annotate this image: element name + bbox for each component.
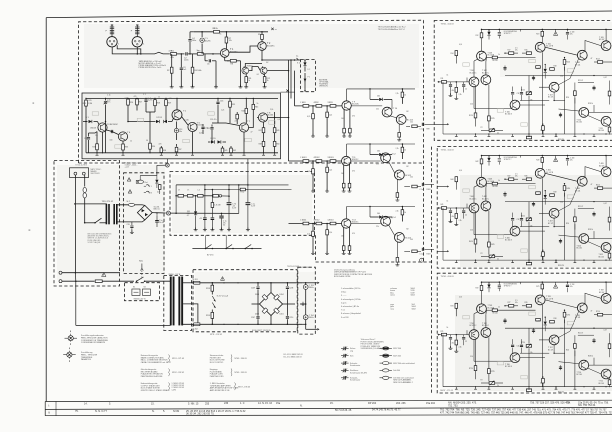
svg-text:BC 160: BC 160 [577,248,582,250]
svg-text:100: 100 [410,239,413,241]
resistor R92 [316,105,322,108]
channel 1 left lower resistors [475,87,477,113]
channel 2 pair collector wires [473,187,475,203]
channel 1 long-tail resistor [455,50,457,57]
bridge rectifier GL1 [137,205,152,220]
bridge DC output wire [152,212,166,214]
svg-text:560: 560 [377,96,380,98]
dashed enclosure right edge / bottom of preamp unit [423,20,425,262]
svg-text:1k5: 1k5 [341,236,344,238]
diode stage 3 [370,216,379,218]
channel 3 output wires right [589,364,612,366]
stage 3 output entry into channel box 3 [437,250,447,252]
arrow element in connector box [304,73,306,82]
transistor T 14a [381,216,391,226]
channel 3 mid coupling [554,345,565,353]
svg-text:1N4148: 1N4148 [90,128,96,130]
svg-text:5 grün: 5 grün [341,301,346,304]
svg-text:1k: 1k [404,150,406,152]
svg-text:T 411: T 411 [599,254,603,256]
svg-text:2,2k: 2,2k [396,148,399,150]
svg-text:T 105: T 105 [546,44,551,46]
svg-text:5.: 5. [163,409,165,413]
svg-text:C2: C2 [465,215,467,217]
channel 3 left lower resistors [475,339,477,365]
svg-text:NN. 755 753 34.: NN. 755 753 34. [578,404,596,407]
svg-text:6 schwarz/rot } B7-4a: 6 schwarz/rot } B7-4a [341,305,360,308]
svg-text:R76: R76 [525,302,528,304]
channel 3 T05 top resistor [541,282,543,284]
svg-text:T 709: T 709 [599,290,604,292]
svg-text:R36: R36 [163,150,166,152]
filter box mid ground [305,300,307,308]
plug pin left [74,172,77,175]
channel 2 long verticals [541,178,543,260]
svg-text:BD 106: BD 106 [599,383,604,385]
svg-text:8 schwarz } Hauptk: 8 schwarz } Hauptkabel [341,312,361,315]
svg-text:1k: 1k [257,103,259,105]
svg-text:1,5k: 1,5k [560,76,563,78]
svg-text:GRUPPO DELLO STADIO FINALE: GRUPPO DELLO STADIO FINALE [141,389,171,392]
sheet border left edge [45,18,47,402]
transistor T 403 [477,177,487,187]
svg-text:C210: C210 [289,317,293,319]
T3 bias components [88,133,90,137]
zener diode channel 1 [488,29,490,31]
dashed step between tone box and switch section [315,235,317,262]
potentiometer channel 1 [526,92,531,95]
svg-text:B471 305: B471 305 [393,356,401,358]
channel 2 mid coupling [554,218,565,226]
wire switch to transformer primary bottom [100,222,107,224]
crystal element channel 1 [498,29,500,32]
wire [177,53,185,55]
capacitor C12 [145,97,147,100]
svg-text:2 blau: 2 blau [341,292,346,294]
svg-text:T 110: T 110 [577,119,581,121]
tone box top wire [176,184,248,186]
bridge diode D202 [262,308,268,314]
svg-text:47k: 47k [314,102,317,104]
svg-text:470k: 470k [169,51,173,53]
cap column x=229 [228,185,230,202]
ground bus under input stage [170,85,174,88]
svg-text:R21 47: R21 47 [578,80,583,82]
svg-text:1k5: 1k5 [341,173,344,175]
svg-text:Rel.: Rel. [145,182,149,184]
svg-text:15.: 15. [151,402,155,405]
top supply rail of preamp [194,31,268,33]
svg-text:1k: 1k [498,54,500,56]
svg-text:TR10 276 02: TR10 276 02 [102,201,114,203]
warning triangle channel 3 [554,284,558,288]
svg-text:SW060-407 N: SW060-407 N [134,298,147,300]
tone output wires to right [248,184,289,186]
legend capacitor symbol row 5 [341,377,344,379]
svg-text:R28 1k: R28 1k [588,356,593,358]
svg-text:C 1: C 1 [143,94,146,96]
TR2 secondary bottom lead [182,324,193,325]
stage 1 lower components [398,124,400,132]
resistor R116 vertical [564,58,566,60]
svg-text:R28 1k: R28 1k [588,103,593,105]
svg-text:1,5M: 1,5M [88,103,92,105]
resistor R102 [316,160,322,163]
svg-text:1k: 1k [197,50,199,52]
svg-text:22k: 22k [376,108,379,110]
svg-text:C 1u: C 1u [300,102,304,104]
resistor R29 [165,98,167,99]
svg-text:2,2k: 2,2k [459,220,462,222]
resistor R4 [192,54,194,67]
channel 1 top supply rail [482,28,612,30]
transistor T 702 [481,328,491,338]
channel 1 extra small parts [504,66,506,72]
stage 2 ground marks [311,189,315,192]
svg-text:R26: R26 [566,223,569,225]
outer dashed edge of channel boxes 2-3 [431,147,433,393]
dashed enclosure: transformer 2 box [164,275,192,330]
divider cap column [204,185,206,218]
svg-text:22k: 22k [376,226,379,228]
svg-text:1,5k: 1,5k [560,202,563,204]
svg-text:BC 147 B: BC 147 B [546,298,553,300]
svg-text:R119: R119 [427,254,431,256]
cap C210 [286,304,288,316]
svg-text:BD 106: BD 106 [599,256,604,258]
svg-text:3 ——: 3 —— [341,295,346,297]
svg-text:R46: R46 [525,176,528,178]
svg-text:2,2k: 2,2k [396,211,399,213]
svg-text:255: 255 [205,402,210,405]
svg-text:47u: 47u [570,160,573,162]
wire from DIN socket B1 bottom to input line [112,47,170,54]
stage 1 ground marks [311,134,315,137]
svg-text:22k: 22k [376,164,379,166]
svg-text:TS701 - 054 03: TS701 - 054 03 [441,150,454,152]
tone chain resistor R74 [213,195,219,198]
svg-text:AMPLIFICATORE 3 VIE: AMPLIFICATORE 3 VIE [210,389,230,392]
filter cap C703 upper [305,283,307,285]
svg-text:R8: R8 [231,64,233,66]
svg-text:3300u: 3300u [309,287,314,289]
svg-text:4,7k: 4,7k [459,44,462,46]
svg-text:SECTEUR: SECTEUR [91,173,101,175]
svg-text:Si 2: Si 2 [127,201,130,203]
svg-text:BC 147 B: BC 147 B [546,46,553,48]
svg-text:1,2k: 1,2k [329,170,332,172]
resistor R93 [330,105,336,108]
svg-text:470: 470 [352,115,355,117]
svg-text:14.: 14. [84,403,88,406]
channel 2 extra small parts [504,192,506,198]
svg-text:CAIXA COLLEGAMENTO mit. NETZ: CAIXA COLLEGAMENTO mit. NETZ [141,361,172,364]
svg-text:R47: R47 [508,176,511,178]
svg-text:R49: R49 [276,130,279,132]
svg-text:BD 107: BD 107 [599,165,604,167]
stage 1 top rail [347,88,415,90]
crystal element channel 2 [498,156,500,159]
channel 3 input network [438,334,470,336]
switch row stubs [205,235,207,248]
svg-text:T 706: T 706 [505,364,510,366]
svg-text:1k: 1k [404,94,406,96]
svg-text:C 403: C 403 [570,158,574,160]
channel 2 top supply rail [482,155,612,157]
svg-text:47k: 47k [171,57,174,59]
channel 2 bottom rail [443,259,612,261]
capacitor C15 [211,125,213,127]
svg-text:T 3 BC149C: T 3 BC149C [107,124,119,126]
capacitor C13 [176,122,178,129]
channel 3 rail dropper resistor [481,282,483,285]
svg-text:TS701-05/-06 Abb/Bau 20/7+: TS701-05/-06 Abb/Bau 20/7+2 [378,28,406,31]
svg-text:0,47: 0,47 [604,203,607,205]
channel 3 mid bus wires [505,327,612,329]
svg-text:2,2k: 2,2k [459,347,462,349]
svg-text:B 207 (4 x)+A: B 207 (4 x)+A [217,295,229,298]
svg-text:R26: R26 [566,350,569,352]
svg-text:SPRUTZ T: SPRUTZ T [504,286,512,288]
svg-text:2,2k: 2,2k [125,98,128,100]
svg-text:15a: 15a [276,402,281,405]
resistor R422 vertical [574,209,576,217]
svg-text:47k: 47k [314,157,317,159]
svg-text:P2: P2 [481,127,483,129]
resistor R91 [303,105,309,108]
svg-text:R99: R99 [427,129,430,131]
svg-text:C11 220: C11 220 [517,346,523,348]
stage 2 top rail [347,143,415,145]
svg-text:T 711: T 711 [599,381,603,383]
driver stage 3 input wire [289,223,342,225]
dashed enclosure: power supply 2 box [193,270,297,332]
transformer TR1 secondary top lead [117,204,129,206]
channel 3 top rail stubs [488,282,490,284]
svg-text:S1: S1 [133,287,135,289]
svg-text:R724: R724 [469,368,473,370]
switch contact 2 [226,245,232,249]
capacitor C703 [567,282,569,284]
switch row wire [192,248,261,250]
T4 emitter resistor [122,141,124,144]
stage 2 top resistor [401,144,403,147]
svg-text:C 103: C 103 [570,31,574,33]
transistor T 9 input [342,101,351,110]
resistor R28 [154,98,156,99]
transistor T8 [258,113,267,122]
svg-text:C20: C20 [127,224,130,226]
svg-text:R114: R114 [596,58,600,60]
svg-text:R28: R28 [157,102,160,104]
svg-text:BC 413 C: BC 413 C [470,72,478,74]
svg-text:BD 107: BD 107 [599,292,604,294]
bridge bottom AC lead [117,220,145,224]
zener diode channel 2 [488,156,490,158]
stage 3 lower components [396,242,398,257]
stage 3 output network [404,250,410,252]
svg-text:R44: R44 [451,179,454,181]
transistor T 402 [481,201,491,211]
svg-text:6,3: 6,3 [223,224,225,226]
svg-text:P2: P2 [481,253,483,255]
channel 2 emitter bus [473,213,475,235]
zener cluster channel 1 [544,65,546,69]
transistor T 110 [579,108,589,118]
svg-text:B2: B2 [407,111,409,113]
svg-text:T 407: T 407 [548,221,553,223]
switch contact on mains line [137,277,144,281]
channel 1 left edge vertical wire [442,82,444,134]
svg-text:R28 1k: R28 1k [588,229,593,231]
svg-text:100n: 100n [192,40,196,42]
dashed enclosure: output channel box 1 (top right) [434,21,612,141]
diode stage 1 [370,98,379,100]
feed-through stub up to amp box [166,159,168,163]
svg-text:T 101: T 101 [470,70,475,72]
left margin specks [33,103,35,104]
transistor T2 [258,42,267,51]
channel 3 left edge vertical wire [442,335,444,387]
resistor R202 [211,310,213,313]
svg-text:BOUCLAGE OPRE: BOUCLAGE OPRE [334,275,351,278]
resistor R416 vertical [564,184,566,186]
bridge rectifier GL201 diamond [260,293,283,316]
transistor T 401 [469,203,479,213]
resistor R414 right [594,187,597,189]
driver stage 2 input wire [289,160,342,162]
TR2 primary top lead [170,277,172,281]
svg-text:22k: 22k [95,135,98,137]
svg-text:1k: 1k [447,327,449,329]
svg-text:R2: R2 [167,70,169,72]
channel 1 lower horizontals [520,100,549,102]
svg-text:14. N. 15. 16: 14. N. 15. 16 [258,402,273,405]
dashed enclosure: preamp unit (top-left large dashed box) [79,20,424,163]
svg-text:C10: C10 [470,356,473,358]
channel 3 bottom resistors [526,389,531,392]
transistor T 406 [510,226,520,236]
svg-text:100: 100 [110,140,113,142]
svg-text:2N3819: 2N3819 [247,66,253,68]
driver stage 1 input wire [295,105,342,107]
svg-text:C 1u: C 1u [420,129,424,131]
channel 1 input arrow [438,81,440,83]
resistor R8 at T1 emitter [224,57,226,61]
svg-text:BC160: BC160 [267,115,273,117]
svg-text:R45: R45 [255,107,258,109]
warning triangle PSU2 [221,277,225,281]
svg-text:754.: 754. [566,402,571,405]
resistor R1a on mid wire [240,188,245,191]
svg-text:R14: R14 [451,53,454,55]
svg-text:BC 161 B: BC 161 B [505,240,512,242]
diode pair mid bus [128,121,156,123]
legend oval symbol row 1 [380,347,383,349]
resistor R27 [136,97,138,100]
svg-text:12k: 12k [328,220,331,222]
svg-text:10u/35: 10u/35 [205,40,211,42]
fuse on secondary [128,203,134,206]
svg-text:47: 47 [591,58,593,60]
input DIN socket B2 [132,37,142,47]
resistor R122 vertical [574,83,576,91]
svg-text:D4 D5: D4 D5 [211,138,216,140]
dashed line: pushbutton switch section bottom [316,261,434,263]
svg-text:T 109: T 109 [599,37,604,39]
stage 2 emitter components [343,165,345,183]
svg-text:NT03 - 395 03: NT03 - 395 03 [235,372,247,374]
switch actuator symbol [141,264,143,269]
psu2 rail dots [212,282,213,283]
capacitor C16 right column [217,98,219,101]
svg-text:R44: R44 [242,111,245,113]
bridge horizontal leads [252,303,260,305]
svg-text:S 1a: S 1a [297,63,301,65]
svg-text:0,47: 0,47 [199,133,202,135]
svg-text:R16: R16 [525,50,528,52]
channel 2 rail dropper resistor [481,156,483,159]
svg-text:2k: 2k [497,385,499,387]
transistor T 408 [577,176,587,186]
svg-text:C 5: C 5 [515,48,518,50]
svg-text:R25: R25 [89,100,92,102]
transistor T 101 [469,77,479,87]
svg-text:CONDENSADOR PASANTE: CONDENSADOR PASANTE [81,341,106,344]
amp box top inner rail [86,97,278,99]
stage 3 bias resistors [312,224,314,232]
svg-text:BC 413 C: BC 413 C [470,198,478,200]
svg-text:T 406: T 406 [505,237,510,239]
svg-text:B2: B2 [407,166,409,168]
left chassis vertical continuity [74,273,76,282]
svg-text:4,7k: 4,7k [459,170,462,172]
stage 1 top resistor [401,89,403,92]
svg-text:25u 40: 25u 40 [159,222,164,224]
svg-text:100: 100 [410,177,413,179]
transistor T 410 [579,234,589,244]
resistor R39 [229,98,231,101]
capacitor C3 [180,54,182,67]
svg-text:N.: N. [300,405,303,408]
resistors R41 R42 bottom [222,146,224,148]
svg-text:47: 47 [591,184,593,186]
svg-text:BC160: BC160 [197,125,203,127]
legend oval symbol row 4 [380,369,383,371]
svg-text:NT07 - 196 03: NT07 - 196 03 [238,387,250,389]
svg-text:+25: +25 [199,218,202,220]
svg-text:NT01 - 371 03: NT01 - 371 03 [172,358,184,360]
svg-text:R18: R18 [554,318,557,320]
svg-text:NT01-171/02: NT01-171/02 [299,267,310,269]
svg-text:R47: R47 [259,130,262,132]
channel 1 junction dots [473,81,474,82]
transistor T1 [220,49,229,58]
wire T2 emitter down to node [261,50,263,60]
channel 1 rail dropper resistor [481,29,483,32]
mains switch contact [84,222,86,224]
transistor T 705 [535,295,545,305]
resistor R716 vertical [564,310,566,312]
svg-text:2,2k: 2,2k [459,94,462,96]
svg-text:10u: 10u [179,131,182,133]
svg-text:Sich: Sich [350,356,354,358]
warning triangle channel 1 [554,32,558,36]
transistor T 11 input [342,156,351,165]
svg-text:2k: 2k [497,259,499,261]
svg-text:C 5: C 5 [515,300,518,302]
svg-text:weiss: weiss [390,295,395,297]
